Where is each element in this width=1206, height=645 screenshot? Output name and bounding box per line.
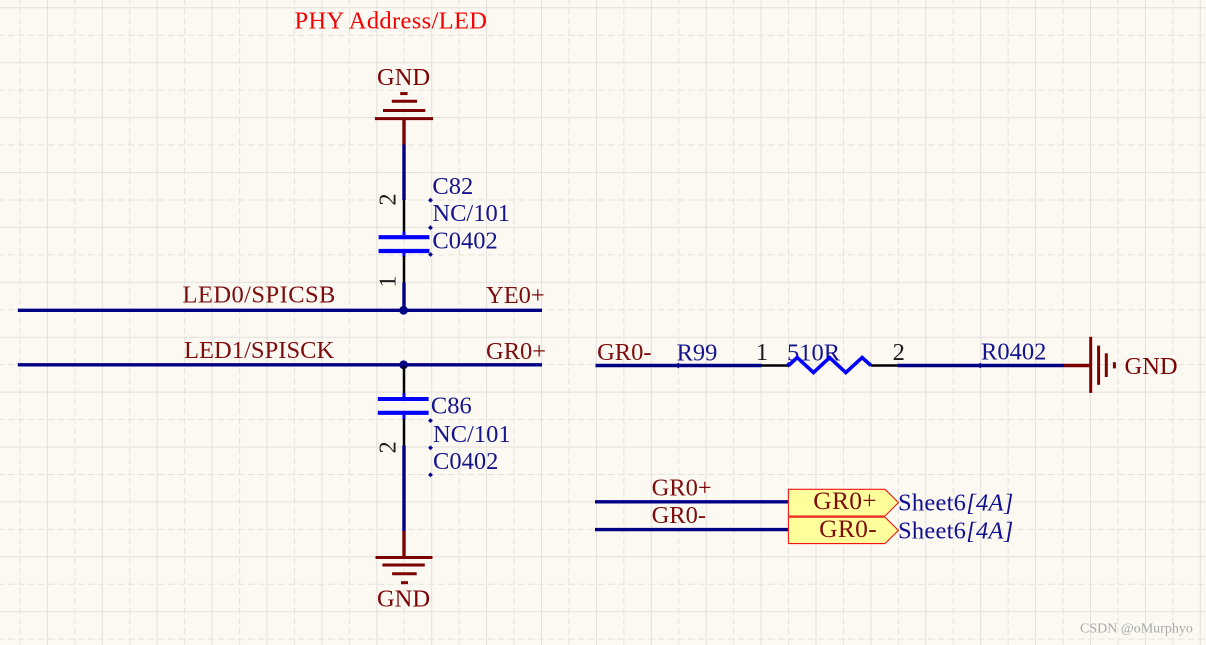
svg-text:GND: GND [377, 585, 430, 612]
anchor dot of C0402 [428, 252, 433, 257]
svg-text:GR0+: GR0+ [652, 474, 712, 501]
svg-text:YE0+: YE0+ [486, 282, 545, 309]
svg-text:R0402: R0402 [981, 339, 1046, 366]
anchor dot of NC/101 [428, 225, 433, 230]
svg-text:GND: GND [1125, 353, 1178, 380]
power port GND top (symbol bars) [375, 94, 433, 119]
svg-text:2: 2 [375, 441, 402, 453]
svg-text:R99: R99 [677, 339, 718, 366]
power port GND bottom (stem) [402, 531, 405, 558]
svg-text:C0402: C0402 [433, 448, 498, 475]
svg-text:GR0-: GR0- [819, 514, 877, 543]
wire vertical from C82 pin1 to wire W1 [402, 283, 405, 311]
capacitor C82 pin 1 (black) [403, 256, 406, 283]
wire R99 to GND right [897, 364, 1064, 367]
svg-text:LED1/SPISCK: LED1/SPISCK [184, 337, 335, 364]
sheet entry GR0+ [788, 489, 898, 516]
power port GND bottom (symbol bars) [376, 558, 433, 583]
svg-text:LED0/SPICSB: LED0/SPICSB [183, 282, 336, 309]
anchor dot of R0402 [977, 363, 983, 369]
resistor R99 pin 1 (black) [761, 364, 789, 367]
svg-text:GR0-: GR0- [597, 339, 651, 366]
junction on wire LED1 [399, 360, 408, 369]
capacitor C86 pin 1 (black) [403, 366, 406, 397]
power port GND right (stem) [1064, 364, 1091, 367]
svg-text:1: 1 [375, 275, 402, 287]
wire vertical from C86 pin2 down [402, 446, 405, 532]
svg-text:GR0+: GR0+ [813, 486, 877, 515]
capacitor C86 pin 2 (black) [403, 419, 406, 446]
svg-text:C82: C82 [432, 173, 473, 200]
resistor R99 zigzag body [789, 358, 872, 373]
power port GND top (stem) [402, 120, 405, 145]
svg-text:GR0+: GR0+ [486, 338, 546, 365]
wire GR0+ to sheet entry [595, 500, 789, 503]
svg-text:2: 2 [893, 339, 905, 366]
svg-text:CSDN @oMurphyo: CSDN @oMurphyo [1080, 622, 1193, 637]
wire LED1/SPISCK horizontal [18, 363, 542, 366]
sheet entry GR0- [788, 517, 898, 543]
anchor dot of C86 [428, 418, 433, 423]
wire GR0- to R99 [596, 364, 762, 367]
resistor R99 pin 2 (black) [871, 364, 897, 367]
svg-text:Sheet6[4A]: Sheet6[4A] [898, 490, 1013, 517]
anchor dot of R99 [675, 363, 681, 369]
svg-text:GR0-: GR0- [652, 502, 706, 529]
wire vertical from GND to C82 pin 2 [402, 145, 405, 201]
anchor dot of NC/101 C86 [428, 445, 433, 450]
power port GND right (symbol bars) [1091, 337, 1115, 393]
svg-text:Sheet6[4A]: Sheet6[4A] [898, 517, 1013, 544]
svg-text:C0402: C0402 [432, 228, 497, 255]
anchor dot of C82 [428, 198, 433, 203]
capacitor C82 plates [379, 232, 430, 258]
svg-text:NC/101: NC/101 [432, 200, 510, 227]
wire LED0/SPICSB horizontal [18, 309, 542, 312]
capacitor C82 pin 2 (black) [403, 200, 406, 236]
junction on wire LED0 [399, 306, 408, 315]
wire GR0- to sheet entry [595, 528, 789, 531]
svg-text:2: 2 [375, 193, 402, 205]
svg-text:C86: C86 [431, 392, 472, 419]
anchor dot of C0402 C86 [428, 472, 433, 477]
svg-text:GND: GND [377, 64, 430, 91]
svg-text:1: 1 [756, 339, 768, 366]
svg-text:NC/101: NC/101 [433, 421, 511, 448]
anchor dot of 510R [786, 362, 792, 368]
capacitor C86 plates [378, 393, 429, 420]
svg-text:PHY Address/LED: PHY Address/LED [295, 7, 488, 34]
